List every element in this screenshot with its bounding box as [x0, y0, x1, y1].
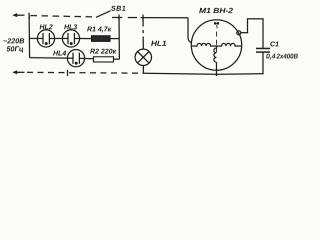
switch SB1	[96, 11, 122, 18]
wire: left vertical bus	[28, 15, 31, 57]
node: left vertical bus top tick	[28, 13, 30, 19]
wire: bottom dashed line	[27, 71, 143, 74]
motor right terminal loop	[237, 31, 241, 35]
motor auxiliary winding (vertical coil)	[214, 46, 217, 62]
wire: row2 corner from bus	[30, 57, 73, 59]
label ~220V	[3, 38, 24, 43]
label M1 BH-2	[199, 8, 233, 13]
wire: solid top line to motor	[141, 17, 189, 19]
wire: HL3 to R1	[74, 37, 91, 39]
wire: bottom mains lead-in arrow	[12, 70, 24, 74]
lamp HL4 (neon)	[67, 50, 84, 67]
wire: middle vertical x119 from top line to row2	[118, 18, 120, 60]
lamp HL3 (neon)	[62, 30, 79, 47]
label R1 4,7k	[87, 27, 111, 33]
resistor R2	[93, 57, 113, 62]
label HL1	[151, 41, 166, 46]
wire: motor bottom stub to bottom line	[215, 62, 217, 76]
wire: HL2 to HL3	[49, 37, 68, 39]
capacitor C1	[256, 48, 270, 52]
motor terminal dots at top	[214, 22, 219, 28]
label HL2	[40, 24, 53, 29]
node: HL1 branch junction on top line	[142, 15, 144, 21]
motor center axis dashed	[215, 32, 217, 52]
wire: HL1 bottom stub	[142, 65, 144, 73]
wire: top dashed line from arrow to switch	[31, 16, 97, 17]
motor M1 circle	[191, 20, 241, 70]
node: tick under HL4 on bottom line	[66, 70, 68, 76]
wire: R2 up to middle vertical	[113, 58, 119, 60]
wire: top mains lead-in arrow	[12, 13, 24, 17]
lamp HL1 (incandescent)	[135, 49, 151, 65]
label R2 220k	[90, 49, 116, 54]
wire: row1 from bus to HL2	[29, 37, 43, 39]
wire: dashed vertical down to HL1	[142, 19, 144, 27]
label 50Hz	[7, 46, 24, 52]
node: junction tick at x119 on top line	[118, 14, 120, 20]
label C1	[270, 41, 278, 46]
lamp HL2 (neon)	[37, 30, 54, 47]
wire: dashed segment after switch	[128, 17, 137, 19]
wire: capacitor bottom to bottom line	[262, 52, 264, 74]
label capacitor value	[266, 54, 275, 60]
label HL3	[64, 24, 77, 29]
resistor R1	[92, 36, 111, 42]
label HL4	[53, 51, 66, 56]
wire: motor right step up to capacitor	[241, 19, 263, 49]
wire: corner down to motor left terminal	[188, 18, 192, 43]
wire: bottom solid line to capacitor	[143, 73, 263, 74]
motor main winding (horizontal coils)	[191, 43, 216, 46]
wire: R1 to junction	[110, 38, 119, 40]
wire: HL4 to R2	[79, 57, 93, 59]
label SB1	[111, 6, 125, 11]
